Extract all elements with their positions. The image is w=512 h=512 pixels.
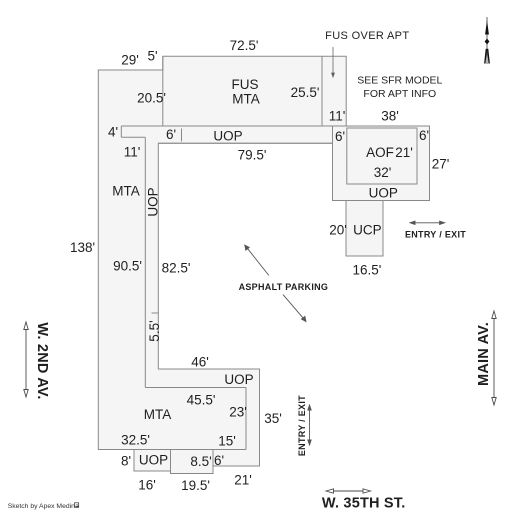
svg-text:23': 23' <box>229 405 247 420</box>
svg-text:8': 8' <box>121 454 131 469</box>
wall: partition x=246 (23ft) <box>245 388 247 450</box>
svg-text:46': 46' <box>191 355 209 370</box>
wall: UCP top y=201 <box>346 200 383 202</box>
svg-text:16.5': 16.5' <box>352 263 381 278</box>
asphalt leader arrow lower segment <box>283 295 306 322</box>
building footprint outline <box>98 56 429 473</box>
street arrow W. 35TH ST. <box>326 489 371 493</box>
svg-text:21': 21' <box>395 145 413 160</box>
svg-text:MAIN AV.: MAIN AV. <box>476 322 492 386</box>
svg-text:UOP: UOP <box>369 186 398 201</box>
svg-text:W. 35TH ST.: W. 35TH ST. <box>322 496 406 512</box>
wall: 4ft notch left edge x=121 <box>120 126 122 137</box>
wall: AOF outer left x=333 <box>332 126 334 143</box>
svg-text:MTA: MTA <box>112 184 140 199</box>
svg-text:15': 15' <box>218 434 236 449</box>
svg-text:16': 16' <box>138 478 156 493</box>
asphalt leader arrow upper segment <box>245 245 269 275</box>
street arrow MAIN AV. <box>492 311 496 405</box>
wall: UOP box right x=170.5 <box>170 450 172 474</box>
entry/exit arrow (vertical) <box>308 405 311 445</box>
svg-text:ENTRY / EXIT: ENTRY / EXIT <box>405 229 466 239</box>
svg-text:FUS OVER APT: FUS OVER APT <box>325 30 409 42</box>
wall: AOF inner rectangle <box>347 128 417 184</box>
svg-text:ENTRY / EXIT: ENTRY / EXIT <box>297 395 307 456</box>
svg-text:11': 11' <box>124 145 141 160</box>
wall: MTA/FUS divider x=163 <box>162 56 164 126</box>
wall: FUS apt strip divider x=322 <box>321 56 323 126</box>
svg-text:UOP: UOP <box>224 372 253 387</box>
svg-text:MTA: MTA <box>232 92 260 107</box>
svg-text:8.5': 8.5' <box>190 454 211 469</box>
svg-text:138': 138' <box>70 240 95 255</box>
svg-text:29': 29' <box>121 53 139 68</box>
entry/exit arrow (horizontal) <box>410 221 445 224</box>
svg-text:5': 5' <box>147 49 157 64</box>
svg-text:6': 6' <box>335 129 345 144</box>
svg-text:32.5': 32.5' <box>121 433 150 448</box>
wall: partition x=213 (6ft) <box>212 450 214 474</box>
wall: FUS bottom / UOP strip top y=126 <box>121 125 346 127</box>
wall: corridor left x=145 <box>144 137 146 387</box>
svg-text:82.5': 82.5' <box>162 261 191 276</box>
svg-text:4': 4' <box>108 125 118 140</box>
wall: notch bottom y=137 <box>121 136 145 138</box>
svg-text:5.5': 5.5' <box>147 320 162 341</box>
svg-text:W. 2ND AV.: W. 2ND AV. <box>34 322 50 399</box>
svg-text:AOF: AOF <box>366 145 394 160</box>
svg-text:UOP: UOP <box>213 129 242 144</box>
svg-text:32': 32' <box>374 165 392 180</box>
svg-text:45.5': 45.5' <box>187 393 216 408</box>
svg-text:35': 35' <box>264 411 282 426</box>
svg-text:79.5': 79.5' <box>238 148 267 163</box>
tick: 5.5ft in corridor <box>152 312 159 314</box>
tick: 6ft at x=181 <box>181 129 183 142</box>
svg-text:25.5': 25.5' <box>291 85 320 100</box>
svg-text:FUS: FUS <box>232 77 259 92</box>
svg-text:19.5': 19.5' <box>181 478 210 493</box>
svg-text:Sketch by Apex Medina: Sketch by Apex Medina <box>8 503 79 510</box>
wall: bottom partition y=449.5 <box>98 449 246 451</box>
street arrow W. 2ND AV. <box>24 322 28 397</box>
svg-text:6': 6' <box>166 127 176 142</box>
svg-text:20': 20' <box>329 223 347 238</box>
svg-text:38': 38' <box>381 109 399 124</box>
svg-text:6': 6' <box>214 453 224 468</box>
wall: lower UOP band bottom y=387.5 <box>145 387 246 389</box>
svg-text:90.5': 90.5' <box>113 259 142 274</box>
svg-text:SEE SFR MODEL: SEE SFR MODEL <box>357 75 442 87</box>
svg-text:21': 21' <box>234 473 252 488</box>
svg-text:UOP: UOP <box>146 187 161 216</box>
svg-text:27': 27' <box>432 157 450 172</box>
svg-text:20.5': 20.5' <box>137 91 166 106</box>
svg-text:11': 11' <box>329 109 346 124</box>
north arrow <box>485 17 490 64</box>
svg-text:UOP: UOP <box>139 453 168 468</box>
svg-text:ASPHALT PARKING: ASPHALT PARKING <box>239 282 329 292</box>
svg-text:UCP: UCP <box>353 223 382 238</box>
svg-text:6': 6' <box>419 128 429 143</box>
svg-text:72.5': 72.5' <box>230 38 259 53</box>
svg-text:MTA: MTA <box>144 407 172 422</box>
wall: UOP strip bottom y=143 <box>158 142 332 144</box>
leader arrow from FUS OVER APT <box>332 47 335 77</box>
svg-text:FOR APT INFO: FOR APT INFO <box>363 88 436 100</box>
